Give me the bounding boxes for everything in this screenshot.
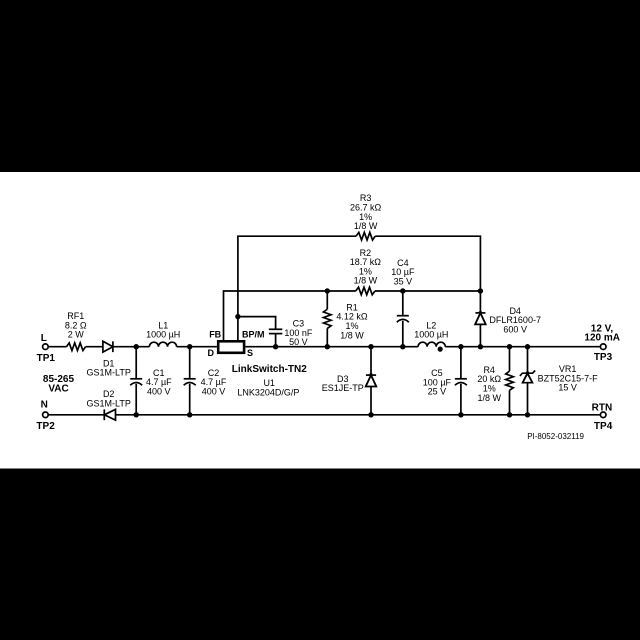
junction C2 bottom xyxy=(187,412,192,417)
label C3 value xyxy=(284,319,313,348)
svg-text:TP4: TP4 xyxy=(594,421,613,432)
diode D1 xyxy=(103,341,113,352)
wire R2 to D4 node xyxy=(375,290,481,292)
IC U1 body xyxy=(218,341,244,353)
junction R1 top xyxy=(325,288,330,293)
label VR1 value xyxy=(538,364,599,393)
junction VR1 top xyxy=(525,344,530,349)
svg-text:S: S xyxy=(247,348,253,358)
label C1 value xyxy=(146,368,172,397)
svg-text:LNK3204D/G/P: LNK3204D/G/P xyxy=(237,387,299,397)
junction C2 top xyxy=(187,344,192,349)
svg-text:FB: FB xyxy=(209,329,221,339)
svg-text:BP/M: BP/M xyxy=(242,329,265,339)
inductor L1 xyxy=(149,342,176,347)
label D2 value xyxy=(87,389,131,408)
label R2 value xyxy=(350,248,382,286)
svg-text:TP1: TP1 xyxy=(37,353,56,364)
svg-text:1000 µH: 1000 µH xyxy=(414,330,448,340)
junction R4 bottom xyxy=(507,412,512,417)
wire BP/M to C3 xyxy=(238,317,276,330)
test point TP1 xyxy=(43,344,49,350)
resistor R4 xyxy=(506,347,514,415)
diode D4 xyxy=(475,291,486,347)
svg-text:400 V: 400 V xyxy=(147,386,171,396)
junction C5 top xyxy=(458,344,463,349)
svg-text:50 V: 50 V xyxy=(289,337,308,347)
label R3 value xyxy=(350,193,382,231)
label D4 value xyxy=(489,306,541,335)
svg-text:400 V: 400 V xyxy=(202,386,226,396)
svg-text:RTN: RTN xyxy=(592,403,613,414)
label RF1 value xyxy=(65,311,87,340)
test point TP3 xyxy=(600,344,606,350)
svg-text:PI-8052-032119: PI-8052-032119 xyxy=(527,432,584,441)
label C5 value xyxy=(423,368,452,397)
label R4 value xyxy=(477,365,501,403)
svg-text:25 V: 25 V xyxy=(428,387,447,397)
junction C1 bottom xyxy=(134,412,139,417)
capacitor C1 xyxy=(130,347,142,415)
wire D1 to L1 xyxy=(113,346,149,348)
junction C4 bottom xyxy=(400,344,405,349)
junction C5 bottom xyxy=(458,412,463,417)
wire R3 to D4 branch xyxy=(375,236,480,291)
svg-text:GS1M-LTP: GS1M-LTP xyxy=(87,399,131,409)
junction VR1 bottom xyxy=(525,412,530,417)
junction C4 top xyxy=(400,288,405,293)
inductor L2 polarity dot xyxy=(438,347,443,352)
junction C1 top xyxy=(134,344,139,349)
svg-text:1/8 W: 1/8 W xyxy=(354,221,378,231)
svg-text:D: D xyxy=(208,348,215,358)
svg-text:2 W: 2 W xyxy=(68,330,85,340)
svg-text:15 V: 15 V xyxy=(558,383,577,393)
svg-text:GS1M-LTP: GS1M-LTP xyxy=(87,368,131,378)
junction D3 top xyxy=(368,344,373,349)
svg-text:600 V: 600 V xyxy=(503,325,527,335)
svg-text:TP3: TP3 xyxy=(594,352,613,363)
zener diode VR1 xyxy=(520,347,535,415)
wire FB pin to R2 net xyxy=(224,291,356,340)
junction R4 top xyxy=(507,344,512,349)
svg-text:TP2: TP2 xyxy=(36,421,55,432)
wire RF1 to D1 xyxy=(86,346,103,348)
junction BP/M C3 branch xyxy=(235,314,240,319)
svg-text:1/8 W: 1/8 W xyxy=(340,330,364,340)
wire BP/M pin to R3 net xyxy=(238,236,356,340)
label D1 value xyxy=(87,358,131,377)
label C4 value xyxy=(391,258,415,287)
wire TP1 to RF1 xyxy=(49,346,67,348)
junction R1 bottom xyxy=(325,344,330,349)
wire TP2 to D2 xyxy=(49,414,105,416)
svg-text:L: L xyxy=(41,333,47,344)
junction D3 bottom xyxy=(368,412,373,417)
label output voltage xyxy=(584,323,620,343)
capacitor C2 xyxy=(184,347,196,415)
label L2 value xyxy=(414,320,448,339)
capacitor C5 xyxy=(455,347,467,415)
resistor R2 xyxy=(356,287,375,295)
svg-text:N: N xyxy=(41,400,48,411)
inductor L2 xyxy=(418,342,445,347)
label L1 value xyxy=(146,320,180,339)
svg-text:35 V: 35 V xyxy=(394,277,413,287)
test point TP2 xyxy=(43,412,49,418)
svg-text:1000 µH: 1000 µH xyxy=(146,330,180,340)
junction D4 top node xyxy=(478,288,483,293)
junction C3 bottom xyxy=(273,344,278,349)
svg-text:LinkSwitch-TN2: LinkSwitch-TN2 xyxy=(232,364,307,375)
label C2 value xyxy=(201,368,227,397)
capacitor C4 xyxy=(397,291,409,347)
label R1 value xyxy=(336,302,368,340)
diode D2 xyxy=(104,409,115,420)
svg-text:1/8 W: 1/8 W xyxy=(354,276,378,286)
svg-text:1/8 W: 1/8 W xyxy=(477,393,501,403)
label D3 value xyxy=(322,374,364,393)
test point TP4 xyxy=(600,412,606,418)
resistor R3 xyxy=(356,232,375,240)
wire L1 to U1 D pin xyxy=(177,346,217,348)
capacitor C3 xyxy=(269,329,282,346)
svg-text:VAC: VAC xyxy=(48,383,68,394)
resistor R1 xyxy=(324,291,332,347)
wire U1 S pin to L2 xyxy=(245,346,418,348)
svg-text:ES1JE-TP: ES1JE-TP xyxy=(322,383,364,393)
wire D2 to TP4 xyxy=(116,414,601,416)
wire L2 to TP3 xyxy=(445,346,600,348)
diode D3 xyxy=(366,347,377,415)
junction D4 bottom xyxy=(478,344,483,349)
resistor RF1 xyxy=(66,343,85,351)
label input voltage xyxy=(43,374,75,394)
svg-text:120 mA: 120 mA xyxy=(584,333,620,344)
